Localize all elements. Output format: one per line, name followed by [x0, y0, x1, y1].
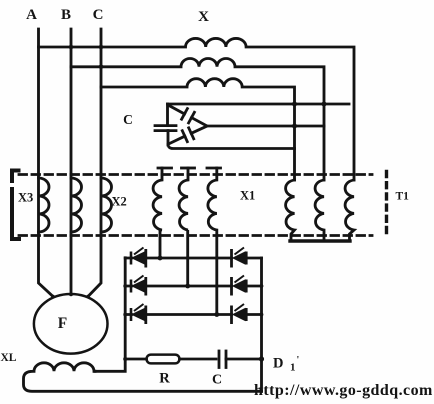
svg-text:T1: T1 [396, 191, 410, 203]
svg-text:R: R [159, 371, 170, 387]
svg-text:C: C [212, 373, 222, 388]
svg-text:F: F [58, 315, 67, 332]
svg-text:1: 1 [290, 362, 296, 374]
svg-text:D: D [273, 356, 283, 372]
svg-text:': ' [297, 355, 300, 366]
svg-text:XL: XL [1, 352, 17, 364]
svg-text:X3: X3 [18, 191, 33, 205]
svg-text:B: B [61, 7, 71, 23]
svg-text:A: A [26, 7, 37, 23]
svg-text:X1: X1 [240, 189, 255, 203]
svg-text:C: C [93, 7, 104, 23]
svg-text:X: X [198, 9, 209, 25]
svg-text:X2: X2 [112, 195, 127, 209]
svg-text:http://www.go-gddq.com: http://www.go-gddq.com [254, 382, 433, 399]
svg-text:C: C [123, 112, 133, 127]
